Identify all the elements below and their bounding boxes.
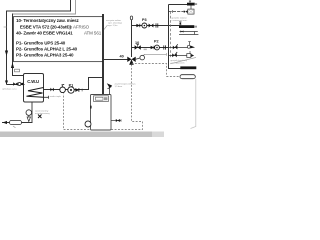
coil in tank <box>27 88 44 98</box>
arrow cold water <box>3 121 8 124</box>
trv radiator 1 <box>184 10 188 13</box>
floor band <box>0 132 152 138</box>
dashed capillary to sensor capsule <box>167 76 181 78</box>
radiator 2 <box>179 25 194 28</box>
valve on P1 line <box>50 88 53 92</box>
wire branch 2 (y55.3) <box>169 55 194 57</box>
safety valve on boiler top <box>109 88 111 95</box>
radiator 1 <box>187 3 195 6</box>
sensor capsule <box>180 75 195 79</box>
wire radiator 1 supply <box>169 4 188 6</box>
note text floor heating <box>171 59 188 65</box>
valve on y84 line <box>13 82 17 86</box>
radiator 3 <box>180 66 196 69</box>
wire tank inlet (y84) <box>7 84 25 86</box>
check valve P1 <box>75 88 79 92</box>
svg-text:ESBE VTA 572 (20-43stC): ESBE VTA 572 (20-43stC) <box>20 24 72 29</box>
callout leader <box>104 25 108 30</box>
thermometer circle right of valve 40 <box>136 58 140 59</box>
svg-text:10: 10 <box>135 41 139 45</box>
wire radiator 2 return 2 <box>179 34 198 36</box>
pump P3 <box>142 23 147 28</box>
callout text near thick pipe <box>106 19 123 27</box>
legend box <box>14 17 104 62</box>
wire P3 branch <box>132 25 180 27</box>
svg-text:cyrkulacja c.w.u: cyrkulacja c.w.u <box>2 88 17 91</box>
svg-text:1,5 bara: 1,5 bara <box>115 85 123 88</box>
leader to radiator 3 <box>170 57 196 63</box>
svg-text:P3- Grundfos ALPHA3 25-40: P3- Grundfos ALPHA3 25-40 <box>16 53 74 58</box>
svg-text:woda ciepła: woda ciepła <box>50 96 62 98</box>
svg-text:10- Termostatyczny zaw. miesz: 10- Termostatyczny zaw. miesz <box>16 18 79 23</box>
CWU tank <box>24 74 44 103</box>
union symbol on pipe B near tank <box>15 69 20 72</box>
svg-text:C.W.U: C.W.U <box>27 79 39 84</box>
dashed wall boundary <box>170 12 172 59</box>
wire CO riser (vertical to air vent) <box>131 19 133 57</box>
svg-text:antyskażeniowy: antyskażeniowy <box>35 112 51 115</box>
svg-text:zawór zwrotny: zawór zwrotny <box>35 110 49 113</box>
sensor circle on P1 line <box>60 87 66 93</box>
svg-text:syst. otwartego: syst. otwartego <box>108 22 123 25</box>
wire radiator 2 return 1 <box>180 31 198 33</box>
cold water note <box>35 110 51 116</box>
flow arrow up on pipe B <box>11 63 14 69</box>
air vent radiator 1 <box>189 1 191 3</box>
legend text <box>16 18 102 58</box>
svg-text:lub AFRISO: lub AFRISO <box>67 24 90 29</box>
wire riser to tank bottom <box>31 102 33 123</box>
speed mark under P2 check valve <box>144 49 147 51</box>
valve 40 (3-way mixing valve) <box>127 57 135 65</box>
boiler <box>91 95 112 131</box>
svg-text:zawór bezpieczeństwa: zawór bezpieczeństwa <box>115 82 137 85</box>
balancing valve branch 2 <box>172 52 177 57</box>
check valve P2 <box>151 46 154 49</box>
arrow into y84 line <box>5 81 8 85</box>
convector symbols branch 2 <box>187 54 191 58</box>
balancing valve branch 1 <box>173 44 178 49</box>
wire cold water inlet <box>2 122 33 124</box>
stem radiator 1 to head <box>190 6 192 10</box>
gray drop wire from capsule <box>191 79 196 129</box>
filter capsule <box>10 120 22 124</box>
valve on P3 branch <box>149 24 154 28</box>
svg-text:40- Zawór 40 ESBE VRG141: 40- Zawór 40 ESBE VRG141 <box>16 31 73 36</box>
svg-text:P1- Grundfos UPS 25-40: P1- Grundfos UPS 25-40 <box>16 40 66 45</box>
wire hot water out (coil bottom) <box>44 96 49 99</box>
safety group gauge <box>26 110 32 116</box>
valve 10 on P2 branch <box>135 45 141 50</box>
boiler pump circle <box>85 121 91 127</box>
svg-text:40: 40 <box>120 55 124 59</box>
svg-text:P2: P2 <box>154 40 159 44</box>
svg-text:P2- Grundfos ALPHA2 L 25-40: P2- Grundfos ALPHA2 L 25-40 <box>16 46 78 51</box>
flow arrow down on pipe A <box>5 51 8 57</box>
air vent on CO riser <box>130 16 132 20</box>
tick on pipe A <box>4 26 7 28</box>
wire riser A (left return pipe) <box>7 0 71 85</box>
svg-text:grzejniki stalowe: grzejniki stalowe <box>172 17 188 20</box>
svg-text:P1: P1 <box>69 83 74 87</box>
tick under capsule <box>13 126 16 128</box>
wire branch to bathroom radiator (y47.5) <box>169 47 195 49</box>
trv radiator 2 <box>181 30 184 32</box>
boiler panel <box>94 96 109 102</box>
safety valve note <box>115 82 137 88</box>
faint link thermometer to manifold <box>144 53 167 56</box>
check valve P3 <box>136 24 139 27</box>
wire radiator 1 return <box>169 11 184 13</box>
valve above radiator 2 <box>179 22 181 25</box>
note text radiators <box>172 17 188 23</box>
wire manifold vertical <box>169 5 183 69</box>
wire boiler supply (thick vertical) <box>102 14 104 95</box>
drain tap <box>38 115 42 119</box>
thermostat head radiator 1 <box>188 9 194 14</box>
wire P1 line (coil to boiler) <box>44 78 104 90</box>
dashed capillary from valve 40 <box>132 64 167 77</box>
svg-text:P3: P3 <box>142 18 147 22</box>
wire riser B (left supply pipe) <box>13 0 76 14</box>
circles on y84 line <box>18 83 21 86</box>
svg-text:wys. 5,5m: wys. 5,5m <box>108 25 118 27</box>
wire P2 branch <box>132 47 169 49</box>
wire return line to mixing valve <box>103 59 128 61</box>
boiler hinge mark <box>90 106 92 109</box>
boiler drain <box>111 120 121 122</box>
flange pair on P2 branch <box>163 45 165 49</box>
pump P1 <box>68 87 74 93</box>
pump P2 <box>155 45 160 50</box>
svg-text:ATM 561: ATM 561 <box>84 31 102 36</box>
svg-text:naczynie wzbior.: naczynie wzbior. <box>106 19 122 22</box>
towel radiator symbols branch 1 <box>187 45 190 48</box>
flange on P3 branch <box>155 23 157 27</box>
